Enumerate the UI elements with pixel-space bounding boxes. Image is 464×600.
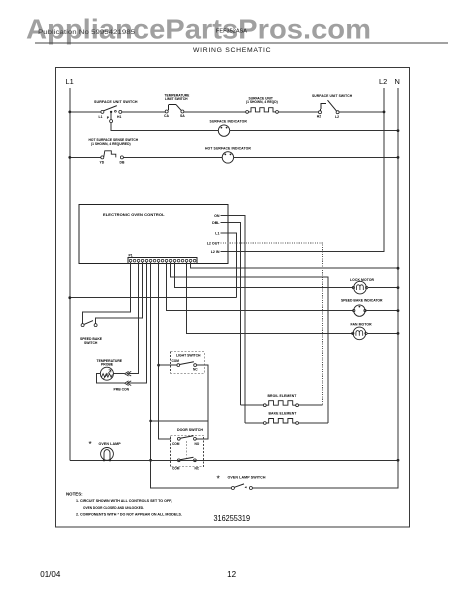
wire indicator row to N: [230, 130, 398, 132]
svg-text:COM: COM: [172, 359, 180, 363]
junction speed bake indicator row on N: [397, 309, 400, 312]
hot surface indicator lamp: [205, 146, 251, 163]
svg-text:SURFACE UNIT SWITCH: SURFACE UNIT SWITCH: [312, 94, 353, 98]
svg-text:YD: YD: [100, 160, 105, 164]
broil element: [241, 394, 323, 407]
junction row1 on L2: [383, 111, 386, 114]
watermark: [26, 13, 371, 44]
svg-text:NO: NO: [195, 442, 200, 446]
junction row3 on L1: [68, 156, 71, 159]
svg-text:LOCK MOTOR: LOCK MOTOR: [350, 278, 375, 282]
svg-text:1. CIRCUIT SHOWN WITH ALL CON: 1. CIRCUIT SHOWN WITH ALL CONTROLS SET T…: [76, 498, 172, 503]
junction lock motor row on N: [397, 286, 400, 289]
svg-text:P1: P1: [129, 253, 133, 257]
wire strip to oven lamp row junction: [150, 262, 152, 460]
svg-text:NOTES:: NOTES:: [66, 492, 83, 497]
svg-text:BAKE ELEMENT: BAKE ELEMENT: [269, 412, 298, 416]
wire lamp switch to N drop: [252, 460, 398, 488]
door switch S3: [171, 428, 204, 470]
svg-text:Publication No 5995421985: Publication No 5995421985: [38, 29, 135, 36]
svg-text:L1: L1: [99, 115, 103, 119]
svg-text:ON: ON: [214, 214, 220, 218]
wire L1 row to L1 bus: [70, 297, 237, 299]
svg-text:SURFACE UNIT SWITCH: SURFACE UNIT SWITCH: [94, 100, 138, 104]
wire strip to N row: [191, 262, 398, 268]
junction L1 row on L1 bus: [68, 296, 71, 299]
svg-text:L2: L2: [335, 115, 339, 119]
svg-text:316255319: 316255319: [214, 514, 251, 523]
wire pin L2 IN stub: [221, 250, 229, 252]
junction light switch tap: [157, 364, 160, 367]
junction row1 on L1: [68, 111, 71, 114]
svg-text:DB: DB: [120, 160, 125, 164]
svg-text:NC: NC: [195, 466, 200, 470]
junction lamp row: [149, 459, 152, 462]
surface unit element: [246, 97, 279, 114]
surface unit switch right: [312, 94, 353, 119]
N bus wire: [397, 88, 399, 488]
svg-text:LIGHT SWITCH: LIGHT SWITCH: [176, 354, 201, 358]
svg-text:L1: L1: [66, 77, 74, 86]
wire strip to light switch COM and door COM: [159, 262, 171, 439]
fan motor M2: [351, 323, 373, 340]
oven lamp switch S4: [217, 474, 266, 490]
speed bake switch: [80, 321, 103, 345]
wire pin L2 OUT to broil element right leg (dashed): [221, 243, 323, 405]
wire strip to speed bake switch left: [83, 262, 131, 324]
wire row1 to L2 bus: [339, 111, 384, 113]
wire tap to light switch COM: [159, 364, 177, 366]
svg-text:HOT SURFACE INDICATOR: HOT SURFACE INDICATOR: [205, 146, 251, 150]
wire strip to bake element right leg: [171, 262, 328, 423]
svg-text:LIMIT SWITCH: LIMIT SWITCH: [165, 97, 188, 101]
svg-text:COM: COM: [172, 466, 180, 470]
svg-text:L2 IN: L2 IN: [211, 250, 220, 254]
wire limit switch to surface element: [184, 111, 246, 113]
svg-text:SURFACE INDICATOR: SURFACE INDICATOR: [210, 119, 248, 123]
wire pin DBL to L1 row: [221, 222, 241, 405]
svg-text:(1 SHOWN, 4 REQD): (1 SHOWN, 4 REQD): [246, 100, 278, 104]
wire strip to fan motor row: [187, 262, 353, 333]
L2 bus wire: [229, 88, 385, 251]
junction hot indicator row on N: [397, 156, 400, 159]
svg-text:BROIL ELEMENT: BROIL ELEMENT: [268, 394, 298, 398]
temperature probe RT1: [97, 359, 123, 380]
svg-text:(1 SHOWN, 4 REQUIRED): (1 SHOWN, 4 REQUIRED): [91, 142, 131, 146]
junction lamp row on N: [397, 459, 400, 462]
wire speed bake indicator to N: [365, 310, 398, 312]
wire strip to speed bake indicator row: [167, 262, 354, 311]
svg-text:PRB CON: PRB CON: [114, 388, 130, 392]
wire lamp row junction down to lamp switch row: [151, 460, 232, 488]
wire hot indicator row to N: [234, 156, 398, 158]
light switch S2: [171, 352, 205, 374]
svg-text:FEF352ASA: FEF352ASA: [216, 29, 247, 35]
junction on N: [397, 267, 400, 270]
wire element to right surface unit switch: [278, 111, 318, 113]
svg-text:ELECTRONIC OVEN CONTROL: ELECTRONIC OVEN CONTROL: [103, 212, 165, 217]
electronic oven control U1: [79, 205, 228, 264]
schematic border frame: [56, 68, 410, 528]
svg-text:WIRING SCHEMATIC: WIRING SCHEMATIC: [193, 47, 271, 54]
svg-text:N: N: [395, 77, 400, 86]
wire pin L1 to broil element left leg: [221, 233, 237, 298]
wire sense switch to hot indicator: [123, 156, 222, 158]
wire strip to lock motor row: [175, 262, 353, 288]
bake element: [245, 412, 328, 425]
wire row3 L1 to sense switch: [70, 156, 101, 158]
hot surface sense switch: [89, 138, 139, 164]
junction fan motor row on N: [397, 332, 400, 335]
junction indicator row on N: [397, 129, 400, 132]
svg-text:*: *: [217, 474, 221, 484]
notes: [66, 492, 182, 517]
wire pin ON to bake element left leg: [221, 216, 246, 423]
wire row1 L1 to surface unit switch: [70, 111, 101, 113]
wire lock motor to N: [368, 287, 398, 289]
wire probe left loop to lower plug: [96, 374, 124, 384]
wire strip to probe upper: [129, 262, 139, 374]
svg-text:OVEN LAMP SWITCH: OVEN LAMP SWITCH: [228, 476, 266, 480]
svg-text:12: 12: [227, 570, 237, 579]
svg-text:COM: COM: [172, 442, 180, 446]
wire strip to probe lower: [129, 262, 147, 383]
header rule: [35, 42, 448, 44]
svg-text:H2: H2: [317, 115, 321, 119]
wire light switch NC to door NO node: [196, 365, 208, 439]
svg-text:OVEN DOOR CLOSED AND UNLOCKED.: OVEN DOOR CLOSED AND UNLOCKED.: [83, 505, 144, 510]
svg-text:01/04: 01/04: [40, 570, 61, 579]
connector PRB CON plugs: [114, 371, 132, 391]
svg-text:*: *: [89, 440, 92, 449]
svg-text:SA: SA: [180, 114, 185, 118]
svg-text:PROBE: PROBE: [101, 362, 114, 366]
svg-text:2. COMPONENTS WITH * DO NOT: 2. COMPONENTS WITH * DO NOT APPEAR ON AL…: [76, 512, 182, 517]
wire row1 switch to limit switch: [122, 111, 166, 113]
svg-text:L1: L1: [215, 232, 219, 236]
svg-text:SPEED BAKE INDICATOR: SPEED BAKE INDICATOR: [341, 298, 383, 302]
svg-text:FAN MOTOR: FAN MOTOR: [351, 323, 373, 327]
svg-text:L2: L2: [379, 77, 387, 86]
svg-text:OVEN LAMP: OVEN LAMP: [99, 442, 122, 446]
svg-text:DBL: DBL: [212, 221, 220, 225]
wire probe right to upper plug: [113, 373, 124, 375]
wire tee to door switch NO path: [151, 420, 208, 422]
wire P terminal drop to indicator row: [110, 113, 218, 131]
connector P1 terminal strip: [128, 253, 197, 264]
svg-text:L2 OUT: L2 OUT: [207, 242, 221, 246]
svg-text:H1: H1: [117, 115, 121, 119]
svg-text:P: P: [107, 116, 110, 120]
speed bake indicator lamp: [341, 298, 383, 316]
oven lamp DS1: [89, 440, 122, 461]
surface unit switch S1: [94, 100, 138, 120]
junction NO path tee: [149, 420, 152, 423]
surface indicator lamp: [210, 119, 248, 136]
L1 bus wire: [69, 88, 71, 460]
wire oven lamp row L1 to N: [70, 459, 398, 461]
wire fan motor to N: [367, 332, 398, 334]
wire strip to speed bake switch right: [96, 262, 143, 324]
temperature limit switch: [164, 94, 190, 118]
svg-text:SWITCH: SWITCH: [84, 341, 98, 345]
svg-text:CA: CA: [164, 114, 169, 118]
svg-text:NC: NC: [193, 367, 198, 371]
lock motor M1: [350, 278, 375, 294]
svg-text:DOOR SWITCH: DOOR SWITCH: [177, 428, 203, 432]
